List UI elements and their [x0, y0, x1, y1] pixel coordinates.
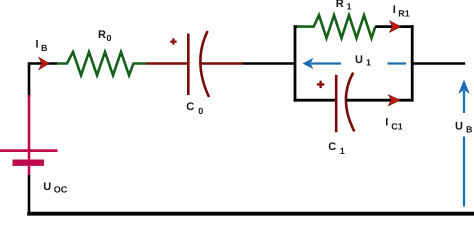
- label UOC: [43, 181, 68, 195]
- wire (bottom rail): [27, 212, 474, 216]
- capacitor C0: [188, 31, 209, 97]
- label R0: [98, 29, 112, 43]
- wire: [28, 175, 31, 214]
- svg-text:0: 0: [107, 33, 112, 43]
- capacitor C1: [336, 73, 354, 133]
- wire (box top-right segment): [375, 25, 413, 28]
- plus sign (C1 polarity): [317, 81, 325, 89]
- svg-text:I: I: [36, 38, 39, 50]
- svg-text:0: 0: [198, 106, 203, 116]
- wire: [28, 95, 31, 176]
- battery UOC (long plate): [0, 149, 58, 152]
- svg-text:U: U: [355, 54, 363, 66]
- svg-text:1: 1: [347, 2, 352, 12]
- label R1: [336, 0, 352, 12]
- svg-text:B: B: [466, 125, 473, 135]
- svg-text:1: 1: [340, 146, 345, 156]
- wire (box right edge): [411, 25, 414, 101]
- svg-text:C: C: [328, 141, 336, 153]
- wire: [243, 62, 295, 65]
- label IC1: [385, 116, 403, 131]
- wire (box bottom-right segment): [346, 99, 414, 102]
- label C1: [328, 141, 345, 156]
- current arrow IC1: [388, 95, 400, 106]
- svg-text:I: I: [393, 4, 396, 16]
- current arrow IR1: [390, 21, 401, 32]
- label UB: [453, 113, 474, 137]
- label IB: [36, 38, 49, 53]
- resistor R1: [297, 15, 375, 38]
- wire: [29, 64, 57, 98]
- battery UOC (short thick plate): [13, 160, 45, 166]
- wire (box top-left segment): [294, 25, 298, 28]
- svg-text:C1: C1: [391, 122, 403, 132]
- plus sign (C0 polarity): [170, 38, 176, 44]
- svg-text:C: C: [186, 101, 194, 113]
- svg-text:OC: OC: [54, 185, 68, 195]
- wire (output): [414, 62, 466, 65]
- wire (box bottom-left segment): [294, 99, 335, 102]
- svg-text:1: 1: [366, 58, 371, 68]
- svg-text:U: U: [43, 181, 51, 193]
- svg-text:R1: R1: [398, 9, 410, 19]
- svg-text:U: U: [455, 121, 463, 133]
- wire (box left edge): [294, 25, 297, 101]
- wire: [201, 62, 243, 65]
- resistor R0: [57, 52, 146, 75]
- label IR1: [393, 4, 410, 19]
- label C0: [186, 101, 203, 116]
- svg-text:R: R: [98, 29, 106, 41]
- voltage arrow U1: [303, 58, 407, 70]
- wire: [146, 62, 187, 65]
- label U1: [355, 54, 371, 68]
- voltage arrow UB: [458, 80, 469, 207]
- current arrow IB: [39, 57, 49, 69]
- svg-text:B: B: [41, 43, 48, 53]
- svg-text:I: I: [385, 116, 388, 128]
- svg-text:R: R: [336, 0, 344, 10]
